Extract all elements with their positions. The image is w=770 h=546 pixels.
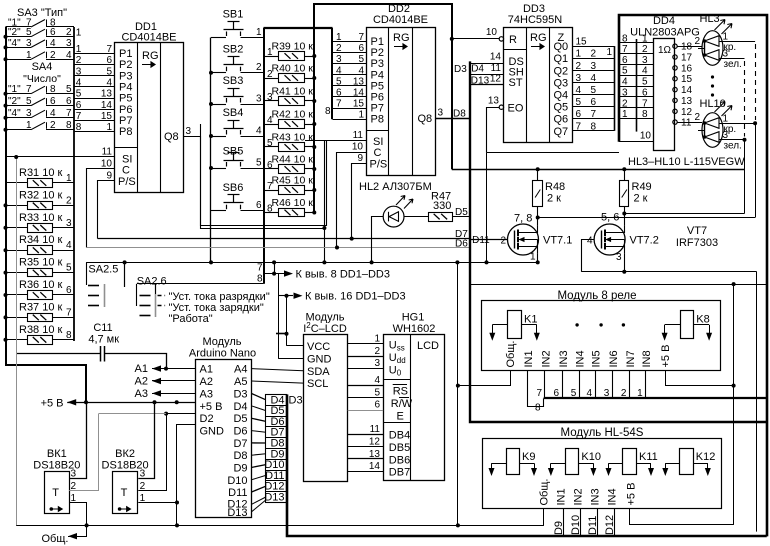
transistor VT7.1 n-MOSFET — [508, 224, 539, 255]
svg-text:D2: D2 — [200, 413, 214, 425]
svg-text:R31 10 к: R31 10 к — [19, 167, 63, 179]
svg-text:7: 7 — [358, 32, 364, 43]
svg-text:2: 2 — [66, 195, 72, 206]
svg-text:IN2: IN2 — [541, 350, 553, 367]
svg-text:7: 7 — [66, 108, 72, 119]
resistor R49 2k — [620, 181, 629, 207]
svg-text:Модуль: Модуль — [203, 336, 242, 348]
DD4 input pin 1 — [619, 42, 654, 44]
svg-text:IRF7303: IRF7303 — [676, 237, 718, 249]
svg-text:D5: D5 — [233, 413, 247, 425]
svg-text:1: 1 — [374, 334, 380, 345]
svg-text:7: 7 — [26, 84, 32, 95]
svg-text:К выв. 8 DD1–DD3: К выв. 8 DD1–DD3 — [296, 269, 390, 281]
svg-text:+5 В: +5 В — [626, 483, 638, 506]
svg-text:9: 9 — [357, 153, 363, 164]
svg-text:2: 2 — [336, 43, 342, 54]
HL3 pin 3 green wire — [719, 58, 745, 60]
svg-text:RS: RS — [393, 386, 408, 398]
svg-text:R48: R48 — [545, 181, 565, 193]
svg-text:8: 8 — [267, 204, 273, 215]
net label D11 — [266, 470, 287, 472]
relay K9 — [507, 449, 520, 475]
svg-text:зел.: зел. — [724, 141, 742, 152]
svg-text:R43 10 к: R43 10 к — [272, 132, 314, 144]
svg-text:R39 10 к: R39 10 к — [272, 41, 314, 53]
SA2 position labels — [158, 295, 166, 297]
wire HL10 red to VT7.1 drain line — [755, 123, 757, 217]
svg-text:8: 8 — [590, 121, 596, 132]
wire Arduino D13 — [251, 500, 265, 512]
svg-text:ВК1: ВК1 — [47, 448, 67, 460]
svg-text:3: 3 — [140, 469, 146, 480]
svg-text:1Ω: 1Ω — [658, 45, 672, 56]
svg-text:D6: D6 — [455, 238, 468, 249]
BK1 pin 3 VDD wire — [69, 402, 86, 478]
svg-text:SB4: SB4 — [223, 107, 244, 119]
svg-text:5: 5 — [66, 263, 72, 274]
svg-text:D5: D5 — [455, 207, 468, 218]
svg-text:5: 5 — [358, 54, 364, 65]
DD4 input pin 6 — [619, 96, 654, 98]
svg-text:K10: K10 — [581, 451, 601, 463]
svg-text:SA4: SA4 — [32, 61, 53, 73]
relay module IN8 wire tap 1 — [645, 371, 647, 399]
net label D8 — [266, 437, 287, 439]
svg-text:D9: D9 — [233, 463, 247, 475]
switch SA2.6 wiper riser — [155, 284, 157, 294]
svg-text:4: 4 — [66, 240, 72, 251]
svg-text:R34 10 к: R34 10 к — [19, 234, 63, 246]
svg-text:IN3: IN3 — [589, 488, 601, 505]
svg-text:P8: P8 — [371, 114, 384, 126]
svg-text:E: E — [397, 411, 404, 423]
switch SA3 contact 3-4 — [6, 47, 32, 49]
svg-text:SCL: SCL — [307, 378, 328, 390]
svg-text:DB4: DB4 — [389, 430, 410, 442]
svg-text:6: 6 — [50, 27, 56, 38]
HL-54S Obsh wire to ground bus — [543, 509, 545, 526]
svg-text:R36 10 к: R36 10 к — [19, 279, 63, 291]
svg-text:7: 7 — [76, 111, 82, 122]
svg-text:7: 7 — [267, 181, 273, 192]
DD4 input pin 8 — [619, 118, 654, 120]
riser SA2.5 to ground line — [274, 262, 276, 273]
svg-text:1: 1 — [106, 122, 112, 133]
svg-text:4: 4 — [50, 108, 56, 119]
svg-text:CD4014BE: CD4014BE — [373, 14, 428, 26]
net label D5 — [266, 405, 287, 407]
svg-text:7: 7 — [257, 263, 263, 274]
svg-text:8: 8 — [642, 109, 648, 120]
svg-text:1: 1 — [256, 27, 262, 38]
svg-text:11: 11 — [681, 118, 692, 129]
svg-text:1: 1 — [76, 28, 82, 39]
svg-text:D4: D4 — [471, 64, 484, 75]
svg-text:A1: A1 — [200, 364, 213, 376]
svg-text:5: 5 — [256, 158, 262, 169]
svg-text:4: 4 — [622, 77, 628, 88]
svg-text:11: 11 — [491, 63, 502, 74]
svg-text:DB6: DB6 — [389, 454, 410, 466]
ellipsis between K1 and K8 — [575, 323, 578, 326]
net label D10 — [266, 459, 287, 461]
svg-text:11: 11 — [102, 147, 113, 158]
svg-text:2: 2 — [71, 481, 77, 492]
svg-text:"4": "4" — [8, 38, 21, 49]
svg-text:Q8: Q8 — [418, 113, 433, 125]
svg-text:6: 6 — [336, 88, 342, 99]
svg-text:5: 5 — [106, 66, 112, 77]
svg-text:16: 16 — [681, 63, 693, 74]
svg-text:GND: GND — [307, 354, 332, 366]
svg-text:D12: D12 — [604, 515, 616, 535]
svg-text:10: 10 — [352, 142, 364, 153]
svg-text:2: 2 — [695, 112, 701, 123]
svg-text:9: 9 — [106, 171, 112, 182]
svg-text:R40 10 к: R40 10 к — [272, 63, 314, 75]
I2C module ground riser — [278, 274, 280, 359]
svg-text:6: 6 — [576, 109, 582, 120]
BK2 pin 1 GND wire — [138, 502, 177, 504]
svg-text:6: 6 — [76, 100, 82, 111]
svg-text:R45 10 к: R45 10 к — [272, 175, 314, 187]
svg-text:IN1: IN1 — [555, 488, 567, 505]
switch SA4 contact 5-6 — [6, 105, 32, 107]
svg-text:D8: D8 — [453, 109, 466, 120]
relay K1 — [508, 311, 522, 339]
svg-text:Общ.: Общ. — [42, 533, 69, 545]
svg-text:3: 3 — [71, 469, 77, 480]
GND wire — [278, 358, 303, 360]
svg-text:R: R — [509, 34, 517, 46]
Arduino GND wire — [177, 425, 196, 526]
DD4 input pin 7 — [619, 107, 654, 109]
svg-text:3: 3 — [576, 73, 582, 84]
svg-text:D13: D13 — [264, 492, 284, 504]
svg-text:6: 6 — [642, 87, 648, 98]
svg-text:EO: EO — [508, 103, 524, 115]
wire to pin 8 of DD1-DD3 (ground) — [264, 273, 284, 275]
BK1 pin 2 DQ wire — [69, 490, 98, 492]
DD4 output pin 11 with inversion circle — [673, 120, 677, 124]
svg-text:SB3: SB3 — [223, 75, 244, 87]
svg-text:3: 3 — [256, 94, 262, 105]
svg-text:R44 10 к: R44 10 к — [272, 154, 314, 166]
LED HL3 bicolor L-115VEGW — [702, 31, 723, 66]
transistor VT7.2 n-MOSFET — [594, 224, 625, 255]
svg-text:I2C–LCD: I2C–LCD — [303, 321, 347, 335]
svg-text:7, 8: 7, 8 — [514, 213, 532, 225]
+5V supply wire — [67, 402, 196, 404]
VCC wire — [287, 345, 304, 347]
svg-text:K11: K11 — [639, 451, 658, 463]
net label D12 — [266, 480, 287, 482]
svg-text:2 к: 2 к — [547, 193, 561, 205]
svg-text:5: 5 — [576, 97, 582, 108]
VT7.1 source wire to ground — [537, 254, 539, 263]
svg-text:3: 3 — [186, 126, 192, 137]
node A1 input wire — [152, 368, 196, 370]
svg-text:13: 13 — [681, 96, 693, 107]
relay K8 — [681, 311, 694, 339]
svg-text:VT7: VT7 — [687, 225, 707, 237]
svg-text:C: C — [374, 147, 382, 159]
svg-text:+5 В: +5 В — [200, 401, 223, 413]
svg-text:D4: D4 — [233, 401, 247, 413]
svg-text:Общ.: Общ. — [505, 341, 517, 368]
svg-text:D3: D3 — [233, 388, 247, 400]
wire HL10 green to VT7.2 drain line — [744, 140, 746, 214]
svg-text:1: 1 — [723, 32, 729, 43]
net D8 distribution wire — [452, 169, 745, 171]
svg-text:P4: P4 — [119, 82, 132, 94]
svg-text:8: 8 — [66, 330, 72, 341]
HG1 pin separators — [383, 379, 411, 381]
DD4 output pin 13 with inversion circle — [673, 98, 677, 102]
svg-text:7: 7 — [590, 109, 596, 120]
HL10 pin 1 red wire — [719, 123, 755, 125]
svg-text:SA2.6: SA2.6 — [137, 276, 167, 288]
svg-text:1: 1 — [26, 50, 32, 61]
VT7.1 drain wire — [537, 218, 539, 226]
svg-text:"2": "2" — [8, 27, 21, 38]
svg-text:5: 5 — [26, 27, 32, 38]
svg-text:4: 4 — [50, 38, 56, 49]
switch SA3 contact 7-8 — [6, 26, 32, 28]
svg-text:GND: GND — [200, 426, 225, 438]
svg-text:4: 4 — [106, 78, 112, 89]
svg-text:2: 2 — [642, 44, 648, 55]
svg-text:ST: ST — [509, 77, 523, 89]
svg-text:"Работа": "Работа" — [169, 313, 213, 325]
svg-text:IN3: IN3 — [558, 350, 570, 367]
svg-text:8: 8 — [622, 33, 628, 44]
svg-text:10: 10 — [101, 159, 113, 170]
svg-text:P1: P1 — [119, 48, 132, 60]
svg-text:HG1: HG1 — [402, 312, 425, 324]
svg-text:RG: RG — [393, 32, 410, 44]
svg-text:RG: RG — [142, 50, 159, 62]
svg-text:2: 2 — [374, 346, 380, 357]
svg-text:8: 8 — [325, 106, 331, 117]
svg-text:DD4: DD4 — [653, 15, 675, 27]
svg-text:R/W: R/W — [391, 398, 413, 410]
DD4 input pin 5 — [619, 86, 654, 88]
relay module Obsh wire to ground — [458, 371, 511, 386]
svg-text:12: 12 — [681, 107, 693, 118]
svg-text:3: 3 — [26, 38, 32, 49]
svg-text:P7: P7 — [119, 115, 132, 127]
svg-text:5: 5 — [76, 89, 82, 100]
svg-text:1: 1 — [358, 110, 364, 121]
svg-text:HL2 АЛ307БМ: HL2 АЛ307БМ — [359, 181, 432, 193]
svg-text:D3: D3 — [454, 64, 467, 75]
wire right edge riser — [756, 272, 758, 532]
VT7.1 drain node 7,8 wire to HL red — [538, 217, 755, 219]
svg-text:D11: D11 — [228, 487, 247, 499]
wire from SB area frame — [201, 124, 327, 226]
svg-text:4: 4 — [358, 65, 364, 76]
svg-text:IN7: IN7 — [625, 350, 637, 367]
DD4 output 11 wire to HL10 — [677, 122, 702, 124]
svg-text:13: 13 — [488, 96, 500, 107]
svg-text:6: 6 — [622, 55, 628, 66]
HL2 cathode wire to ground — [372, 217, 384, 263]
ground bus wire — [16, 525, 544, 527]
svg-text:2: 2 — [267, 69, 273, 80]
svg-text:6: 6 — [50, 96, 56, 107]
svg-text:CD4014BE: CD4014BE — [121, 32, 176, 44]
pull-up rail wire to DD2/DD3 top — [314, 4, 452, 213]
svg-text:8: 8 — [76, 122, 82, 133]
svg-text:IN4: IN4 — [606, 488, 618, 505]
DD4 output pin 16 with inversion circle — [673, 66, 677, 70]
left common bus wire (switch/resistor common) — [6, 27, 86, 402]
svg-text:15: 15 — [576, 37, 588, 48]
svg-text:7: 7 — [106, 44, 112, 55]
svg-text:HL3: HL3 — [700, 13, 720, 25]
relay module IN1 wire tap 8 — [528, 371, 544, 407]
net label D6 — [266, 416, 287, 418]
svg-text:+5 В: +5 В — [41, 398, 64, 410]
svg-text:4: 4 — [256, 126, 262, 137]
svg-text:1: 1 — [642, 33, 648, 44]
switch SA4 contact 1-2 — [6, 129, 32, 131]
switch SA2.5 wiper riser — [124, 262, 126, 287]
svg-text:K1: K1 — [524, 314, 537, 326]
svg-text:5: 5 — [642, 77, 648, 88]
svg-text:SB6: SB6 — [223, 182, 244, 194]
svg-text:1: 1 — [622, 109, 628, 120]
DD2 input tap bus — [264, 27, 333, 29]
svg-text:Модуль: Модуль — [306, 312, 345, 324]
svg-text:18: 18 — [681, 42, 693, 53]
svg-text:5: 5 — [26, 96, 32, 107]
svg-text:SB1: SB1 — [223, 9, 244, 21]
relay K10 — [566, 449, 579, 475]
svg-text:SB2: SB2 — [223, 44, 244, 56]
DD4 output pin 15 with inversion circle — [673, 77, 677, 81]
svg-text:10: 10 — [640, 131, 652, 142]
svg-text:6: 6 — [267, 160, 273, 171]
svg-text:7: 7 — [576, 121, 582, 132]
svg-text:R37 10 к: R37 10 к — [19, 301, 63, 313]
svg-text:SDA: SDA — [307, 366, 330, 378]
svg-text:HL3–HL10 L-115VEGW: HL3–HL10 L-115VEGW — [628, 156, 745, 168]
svg-text:1: 1 — [576, 49, 582, 60]
svg-text:7: 7 — [536, 388, 542, 399]
relay module IN5 wire tap 4 — [595, 371, 597, 399]
svg-text:12: 12 — [490, 74, 502, 85]
ground wire through SA2 row — [86, 262, 538, 264]
svg-text:Модуль HL-54S: Модуль HL-54S — [561, 427, 644, 439]
svg-text:P/S: P/S — [370, 159, 388, 171]
svg-text:74HC595N: 74HC595N — [508, 14, 562, 26]
LED HL10 bicolor L-115VEGW — [702, 113, 723, 148]
svg-text:LCD: LCD — [417, 340, 439, 352]
svg-text:7: 7 — [336, 99, 342, 110]
VT7.2 source wire — [624, 254, 626, 272]
DD4 output pin 14 with inversion circle — [673, 87, 677, 91]
svg-text:6: 6 — [66, 96, 72, 107]
bus line between DD3 and DD4 — [614, 46, 616, 131]
svg-text:A3: A3 — [135, 388, 148, 400]
ellipsis dots between HL3 and HL10 — [711, 75, 714, 78]
svg-text:2 к: 2 к — [634, 193, 648, 205]
switch SA3 contact 5-6 — [6, 36, 32, 38]
node A2 input wire — [152, 380, 196, 382]
svg-text:3: 3 — [723, 130, 729, 141]
svg-text:R46 10 к: R46 10 к — [272, 197, 314, 209]
svg-text:10: 10 — [486, 27, 498, 38]
svg-text:VCC: VCC — [307, 341, 330, 353]
VT7.2 drain wire — [624, 214, 626, 226]
svg-text:P/S: P/S — [118, 176, 136, 188]
svg-text:P3: P3 — [119, 70, 132, 82]
svg-text:D3: D3 — [289, 395, 303, 407]
svg-text:3: 3 — [66, 38, 72, 49]
svg-text:"2": "2" — [8, 96, 21, 107]
svg-text:"1": "1" — [8, 84, 21, 95]
svg-text:3: 3 — [622, 87, 628, 98]
svg-text:1: 1 — [71, 493, 77, 504]
svg-text:3: 3 — [642, 55, 648, 66]
svg-text:A2: A2 — [200, 376, 213, 388]
svg-text:VT7.2: VT7.2 — [630, 235, 659, 247]
BK1 pin 1 GND wire — [69, 503, 86, 526]
svg-text:4,7 мк: 4,7 мк — [88, 334, 119, 346]
DD1 pin-field separator — [115, 147, 138, 149]
svg-text:2: 2 — [76, 55, 82, 66]
svg-text:2: 2 — [590, 49, 596, 60]
svg-text:2: 2 — [695, 36, 701, 47]
DD4 output pin 17 with inversion circle — [673, 55, 677, 59]
svg-text:11: 11 — [370, 424, 381, 435]
svg-text:12: 12 — [369, 437, 381, 448]
HL-54S input wire net D9 — [563, 509, 565, 537]
svg-text:5: 5 — [267, 138, 273, 149]
svg-text:D11: D11 — [587, 516, 599, 535]
svg-text:7: 7 — [66, 307, 72, 318]
svg-text:Q0: Q0 — [554, 41, 569, 53]
svg-text:8: 8 — [535, 403, 541, 414]
svg-text:DB7: DB7 — [389, 467, 410, 479]
HL3 pin 1 red wire — [719, 41, 755, 43]
svg-text:P5: P5 — [119, 93, 132, 105]
svg-text:D13: D13 — [227, 507, 247, 519]
svg-text:8: 8 — [257, 274, 263, 285]
thick bus D riser and turn — [470, 61, 767, 422]
svg-text:K8: K8 — [696, 314, 709, 326]
svg-text:С11: С11 — [93, 322, 112, 334]
svg-text:5: 5 — [66, 84, 72, 95]
svg-text:R41 10 к: R41 10 к — [272, 86, 314, 98]
svg-text:13: 13 — [101, 89, 113, 100]
svg-text:14: 14 — [369, 461, 381, 472]
HL10 pin 3 green wire — [719, 139, 745, 141]
svg-text:14: 14 — [681, 85, 693, 96]
svg-text:Q4: Q4 — [554, 90, 569, 102]
net D6 wire — [87, 247, 471, 249]
svg-text:A4: A4 — [234, 364, 247, 376]
thick bus lower branch — [544, 397, 767, 399]
svg-text:15: 15 — [353, 99, 365, 110]
svg-text:R38 10 к: R38 10 к — [19, 324, 63, 336]
svg-text:4: 4 — [576, 85, 582, 96]
svg-text:1: 1 — [140, 493, 146, 504]
svg-text:3: 3 — [723, 49, 729, 60]
